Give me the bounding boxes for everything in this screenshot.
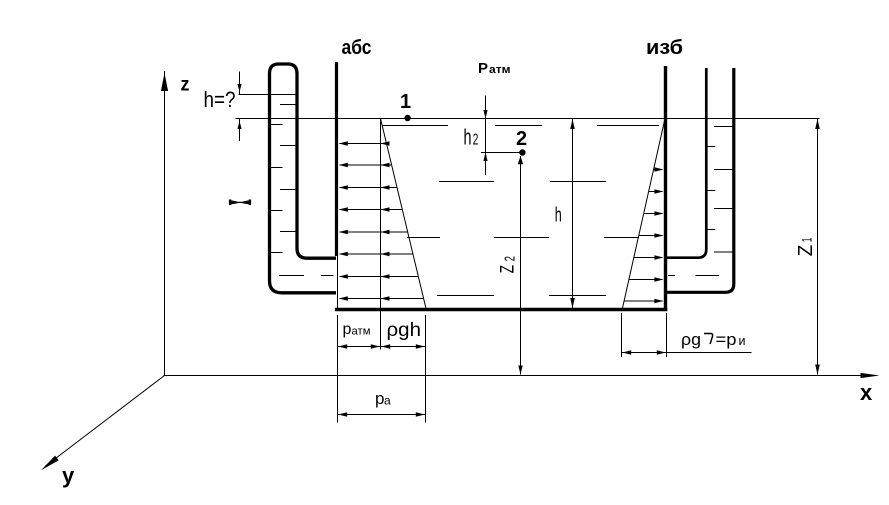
svg-text:2: 2 — [516, 128, 527, 150]
svg-text:2: 2 — [502, 256, 519, 261]
P atm arrow — [485, 96, 487, 119]
dimension p izb — [622, 352, 667, 354]
svg-text:атм: атм — [352, 326, 371, 338]
leader line p izb — [667, 352, 752, 354]
extension line pi right — [666, 313, 668, 357]
left manometer tube — [270, 64, 337, 293]
svg-text:и: и — [739, 333, 746, 348]
right manometer inner wall — [666, 68, 706, 258]
point 2 level line — [481, 152, 524, 154]
svg-text:h: h — [464, 125, 472, 150]
left pressure arrows — [340, 143, 387, 145]
right tube channel dashes — [668, 275, 675, 277]
x axis — [164, 375, 863, 377]
extension line pi left — [621, 313, 623, 357]
dimension rho-g-h — [381, 346, 426, 348]
left tube channel dashes — [279, 275, 304, 277]
svg-text:x: x — [860, 380, 873, 405]
svg-text:атм: атм — [489, 64, 511, 76]
svg-text:Z: Z — [795, 245, 817, 257]
right pressure arrows — [654, 169, 663, 171]
svg-text:p: p — [343, 321, 352, 338]
svg-text:h: h — [555, 205, 562, 227]
svg-text:абс: абс — [342, 37, 372, 59]
dimension p atm — [338, 346, 381, 348]
dimension h=? line — [239, 72, 241, 95]
svg-text:ρgh: ρgh — [387, 320, 422, 341]
svg-text:Z: Z — [498, 265, 519, 274]
right manometer outer wall — [666, 68, 734, 292]
dimension Z1 line — [817, 119, 819, 375]
extension line rho-g-h — [425, 315, 427, 423]
left pressure diagram boundary — [380, 119, 382, 350]
tank bottom — [335, 308, 667, 312]
point 1 — [404, 115, 410, 121]
tank left wall — [335, 62, 338, 256]
svg-text:z: z — [181, 75, 190, 96]
svg-text:изб: изб — [646, 37, 683, 59]
dimension p a — [338, 414, 426, 416]
svg-text:ρg: ρg — [681, 330, 701, 349]
svg-text:h=?: h=? — [204, 87, 236, 112]
svg-text:2: 2 — [473, 132, 479, 149]
left pressure diagram slant — [381, 119, 427, 309]
dimension Z2 line — [520, 156, 522, 375]
tank water dashes — [382, 125, 448, 127]
y axis — [45, 376, 165, 467]
svg-text:=p: =p — [716, 330, 737, 349]
extension line pa left — [337, 315, 339, 423]
left tube water dashes — [280, 104, 295, 106]
svg-text:1: 1 — [400, 91, 411, 113]
gauge marker — [231, 200, 237, 204]
dimension h line — [572, 119, 574, 308]
left tube liquid level — [239, 94, 296, 96]
svg-text:а: а — [384, 393, 391, 407]
svg-text:1: 1 — [799, 237, 815, 242]
tank right wall — [664, 66, 667, 311]
dimension h2 line — [485, 119, 487, 176]
svg-text:Р: Р — [478, 60, 488, 77]
right pressure diagram slant — [623, 119, 666, 309]
free surface line — [236, 118, 820, 120]
point 2 — [519, 149, 525, 155]
right tube water dashes — [714, 126, 733, 128]
svg-text:y: y — [62, 463, 75, 488]
z axis — [164, 71, 166, 376]
